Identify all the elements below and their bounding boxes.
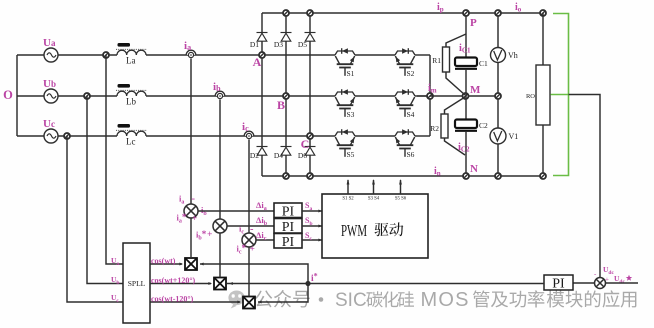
voltage sense tap Ua junction: [103, 52, 109, 58]
wire i* branch to multiplier 3: [258, 284, 308, 303]
wire S4 to midpoint column: [415, 95, 430, 97]
PWM gate arrows to S5 S6: [400, 180, 402, 194]
svg-text:S5: S5: [347, 150, 355, 159]
svg-text:D5: D5: [298, 40, 307, 49]
voltage sense wire Uc: [67, 136, 123, 302]
multiplier phase C: [243, 297, 255, 309]
green sense bracket P-N: [553, 14, 569, 176]
wire phase A source to inductor La: [58, 54, 117, 56]
wire N rail bottom: [262, 175, 543, 177]
SPLL block: [123, 243, 150, 323]
wire current feedback ib: [219, 100, 221, 220]
wire Sa to PWM: [302, 210, 322, 212]
inductor Lc: [117, 131, 146, 136]
summing junction phase C: [242, 233, 256, 247]
junction P rail at D3: [283, 10, 289, 16]
wire P rail top: [262, 12, 543, 14]
diode D5: [309, 13, 311, 33]
wire phase C inductor to switch row: [146, 135, 330, 137]
diode D3: [285, 13, 287, 33]
wire cos(wt) to multiplier 1: [150, 263, 182, 265]
svg-text:P: P: [470, 17, 477, 29]
capacitor C1: [465, 13, 467, 58]
summing junction phase B: [213, 219, 227, 233]
junction N rail at C2: [463, 173, 469, 179]
watermark text: [255, 290, 272, 307]
svg-text:V1: V1: [509, 132, 519, 141]
node M junction: [463, 93, 469, 99]
PWM drive block: [322, 194, 428, 258]
svg-text:Lc: Lc: [126, 137, 136, 147]
wire between S5 and S6: [355, 135, 395, 137]
multiplier phase A: [185, 258, 197, 270]
AC source Ub: [44, 89, 58, 103]
IGBT switch S3: [335, 92, 355, 96]
wire current feedback ia: [190, 59, 192, 205]
wire delta ib to PI2: [227, 225, 274, 227]
wire into switch row S3: [330, 95, 335, 97]
watermark logo: [228, 291, 244, 309]
wire phase B from bus to source Ub: [17, 95, 44, 97]
PI controller current loop C: [274, 234, 302, 249]
voltage sense tap Uc junction: [64, 133, 70, 139]
voltage sense wire Ua: [106, 55, 123, 264]
svg-text:Ub: Ub: [43, 78, 56, 90]
IGBT switch S1: [335, 51, 355, 55]
wire Udc* input: [606, 282, 639, 284]
diode D1: [261, 13, 263, 33]
wire phase A inductor to node A: [146, 54, 330, 56]
wire phase B inductor to switch row: [146, 95, 330, 97]
capacitor C2: [465, 96, 467, 120]
svg-text:M: M: [470, 84, 481, 96]
svg-text:MOS: MOS: [421, 289, 470, 311]
junction P rail at load: [540, 10, 546, 16]
svg-text:S4: S4: [407, 110, 415, 119]
junction N rail at D4: [283, 173, 289, 179]
node B junction: [283, 93, 289, 99]
diode D2: [261, 55, 263, 147]
svg-text:PI: PI: [282, 205, 295, 220]
voltage sense wire Ub: [87, 96, 123, 284]
wire voltmeter column: [497, 13, 499, 176]
current sensor ic: [244, 131, 254, 138]
PI controller voltage loop: [573, 282, 595, 284]
node C junction: [307, 133, 313, 139]
voltmeter Vh: [491, 48, 506, 63]
svg-text:D6: D6: [298, 151, 307, 160]
voltmeter Vl: [490, 128, 506, 144]
wire ia* reference up: [190, 218, 192, 258]
svg-text:PI: PI: [552, 277, 565, 292]
wire cos(wt-120) to multiplier 3: [150, 301, 240, 303]
resistor R2: [445, 97, 466, 114]
svg-text:+: +: [192, 214, 197, 224]
svg-text:Lb: Lb: [126, 97, 136, 107]
svg-text:S2: S2: [407, 69, 415, 78]
resistor R1: [446, 34, 466, 47]
inductor La: [117, 50, 146, 55]
wire i* reference line: [227, 283, 544, 285]
wire S2 to midpoint column: [415, 54, 430, 56]
node O neutral bus: [16, 55, 18, 136]
svg-text:cos(wt+120°): cos(wt+120°): [151, 276, 196, 285]
svg-text:N: N: [470, 163, 478, 175]
junction N rail at meter column: [495, 173, 501, 179]
wire Sc to PWM: [302, 239, 322, 241]
wire multiplier 2 input from i*: [229, 282, 233, 285]
junction midpoint column at M: [427, 93, 433, 99]
voltage sense tap Ub junction: [84, 93, 90, 99]
midpoint column wire: [429, 55, 431, 136]
svg-text:C: C: [301, 137, 310, 151]
junction P rail at meter column: [495, 10, 501, 16]
current sensor ib: [215, 91, 225, 98]
PWM gate arrows to S1 S2: [347, 180, 349, 194]
svg-text:C1: C1: [479, 59, 488, 68]
svg-text:C2: C2: [479, 121, 488, 130]
svg-text:A: A: [253, 55, 262, 69]
junction M rail at meter column: [495, 93, 501, 99]
svg-text:RO: RO: [526, 93, 535, 100]
wire Sb to PWM: [302, 225, 322, 227]
PI controller current loop A: [274, 203, 302, 218]
svg-text:Uc: Uc: [43, 118, 55, 130]
svg-text:S3 S4: S3 S4: [368, 197, 380, 202]
AC source Ua: [44, 48, 58, 62]
multiplier phase B: [214, 278, 226, 290]
IGBT switch S6: [395, 132, 415, 136]
load resistor RO: [542, 13, 544, 65]
green sense tap at load midpoint: [551, 94, 569, 96]
wire delta ic to PI3: [256, 239, 274, 241]
wire M rail: [430, 95, 498, 97]
svg-text:S5 S6: S5 S6: [395, 197, 407, 202]
diode D6: [309, 136, 311, 147]
svg-text:PWM: PWM: [341, 222, 367, 241]
svg-text:PI: PI: [282, 235, 295, 250]
svg-text:D1: D1: [250, 40, 259, 49]
svg-text:D3: D3: [274, 40, 283, 49]
AC source Uc: [44, 129, 58, 143]
PWM gate arrows to S3 S4: [373, 180, 375, 194]
svg-text:R2: R2: [430, 124, 439, 133]
svg-text:S1 S2: S1 S2: [342, 197, 354, 202]
wire between S3 and S4: [355, 95, 395, 97]
svg-text:O: O: [3, 88, 13, 102]
IGBT switch S5: [335, 132, 355, 136]
svg-text:SIC: SIC: [335, 290, 367, 311]
wire cos(wt+120) to multiplier 2: [150, 283, 211, 285]
svg-text:SPLL: SPLL: [128, 279, 146, 288]
wire phase C from bus to source Uc: [17, 135, 44, 137]
svg-text:+: +: [250, 245, 255, 255]
junction i* distribution: [305, 281, 310, 286]
wire into switch row S5: [330, 135, 335, 137]
current im stub: [417, 95, 427, 97]
wire delta ia to PI1: [198, 210, 274, 212]
junction P rail at C1: [463, 10, 469, 16]
inductor Lb: [117, 91, 146, 96]
svg-text:Vh: Vh: [508, 51, 518, 60]
junction N rail at load: [540, 173, 546, 179]
PI controller current loop B: [274, 219, 302, 234]
current sensor ia: [186, 50, 196, 57]
svg-text:cos(wt): cos(wt): [151, 257, 176, 266]
wire i* branch to multiplier 1: [200, 264, 308, 284]
svg-text:+: +: [207, 230, 212, 240]
svg-text:La: La: [126, 56, 136, 66]
svg-text:Ua: Ua: [43, 37, 56, 49]
svg-text:-: -: [192, 194, 196, 205]
svg-text:R1: R1: [432, 56, 441, 65]
svg-text:D2: D2: [250, 151, 259, 160]
wire ib* reference up: [219, 233, 221, 278]
svg-text:S6: S6: [407, 150, 415, 159]
wire phase A from bus to source Ua: [17, 54, 44, 56]
svg-text:cos(wt-120°): cos(wt-120°): [151, 295, 194, 304]
wire into switch row S1: [330, 54, 335, 56]
summing junction Udc: [595, 278, 606, 289]
svg-text:S1: S1: [347, 69, 355, 78]
wire current feedback ic: [248, 140, 250, 234]
junction N rail at D6: [307, 173, 313, 179]
wire ic* reference up: [248, 247, 250, 297]
wire phase B source to inductor Lb: [58, 95, 117, 97]
summing junction phase A: [184, 204, 198, 218]
svg-text:D4: D4: [274, 151, 283, 160]
IGBT switch S2: [395, 51, 415, 55]
node A junction: [259, 52, 265, 58]
wire S6 to midpoint column: [415, 135, 430, 137]
wire Udc feedback: [569, 95, 601, 278]
junction P rail at D5: [307, 10, 313, 16]
svg-text:S3: S3: [347, 110, 355, 119]
svg-text:B: B: [277, 98, 285, 112]
IGBT switch S4: [395, 92, 415, 96]
wire phase C source to inductor Lc: [58, 135, 117, 137]
wire between S1 and S2: [355, 54, 395, 56]
diode D4: [285, 96, 287, 147]
